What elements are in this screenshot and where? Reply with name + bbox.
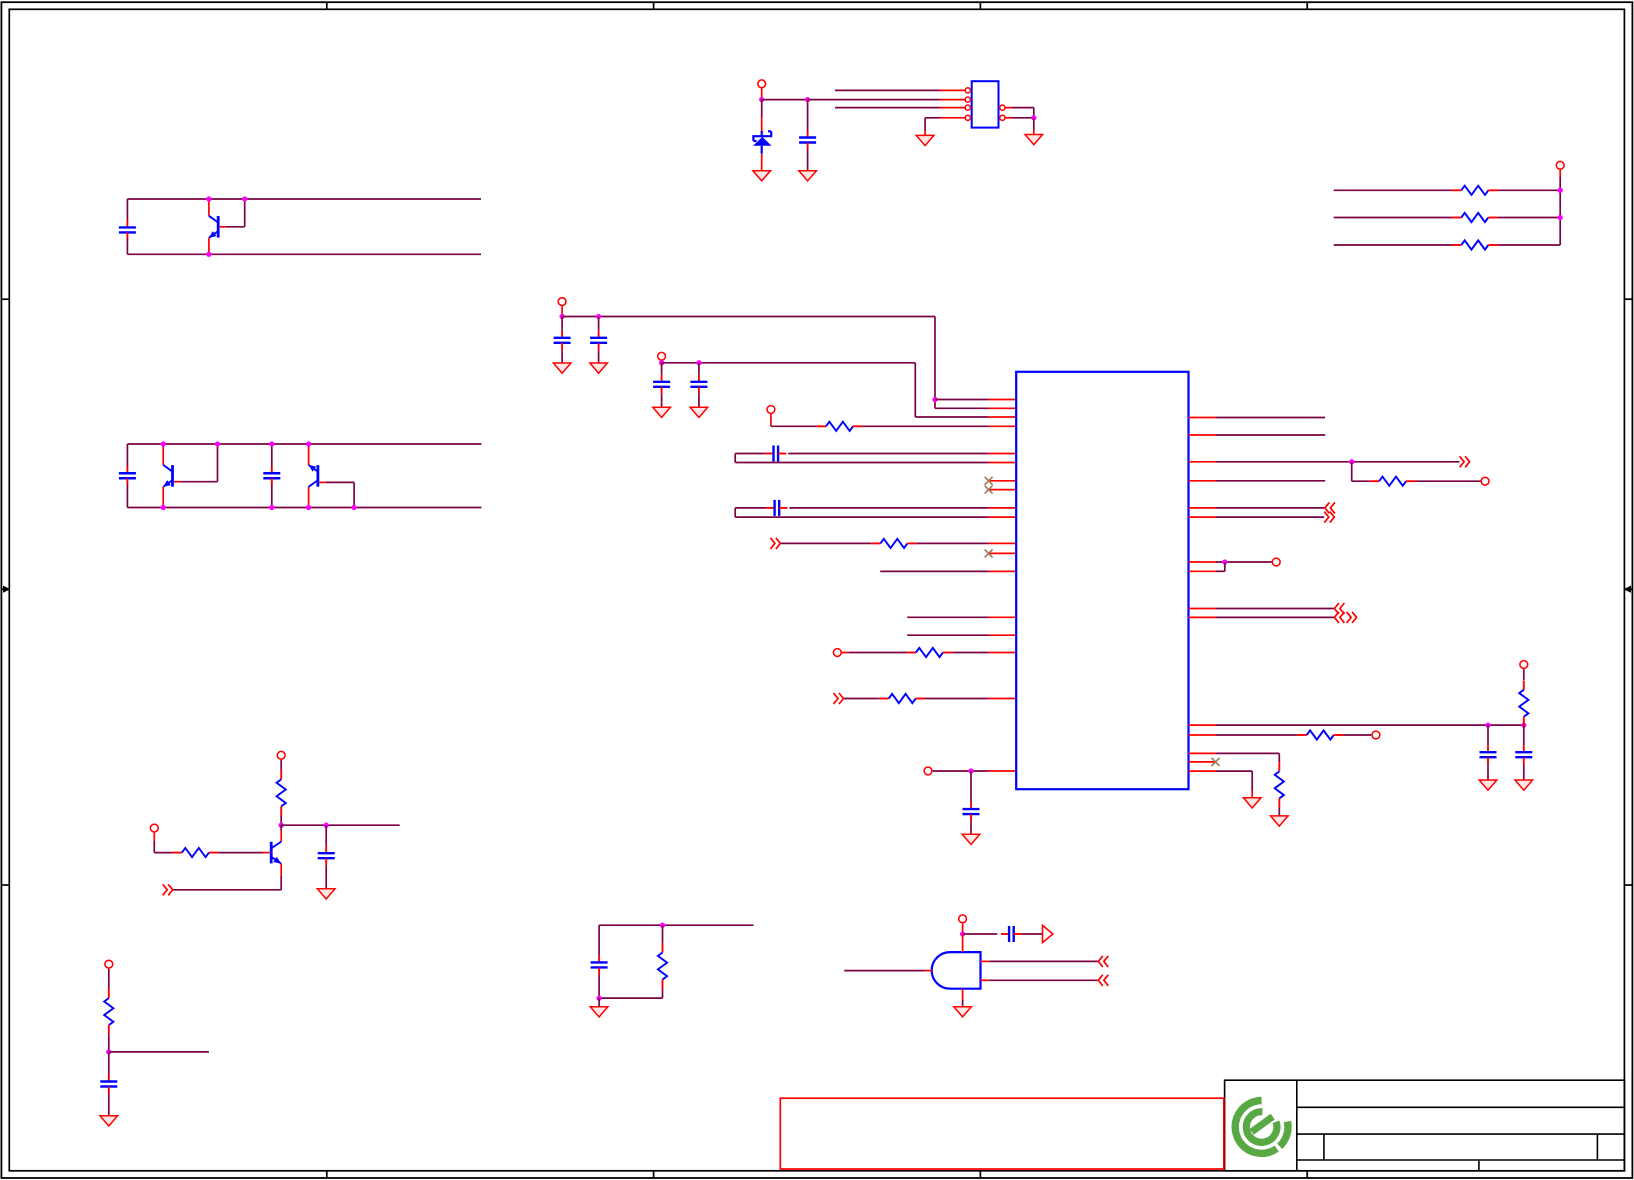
capacitor C2 bbox=[126, 444, 128, 467]
wire bbox=[1498, 244, 1561, 246]
power port P9 bbox=[1272, 558, 1280, 566]
wire bbox=[1343, 734, 1371, 736]
wire to J1 pin4 bbox=[925, 117, 940, 119]
wire to U1 bbox=[952, 652, 988, 654]
off-page connector left-arrow bbox=[1334, 612, 1344, 623]
resistor R13 bbox=[173, 852, 182, 854]
power port P3 bbox=[558, 298, 566, 306]
junction bbox=[559, 314, 564, 319]
off-page connector left-arrow bbox=[1098, 956, 1108, 967]
border tick marks top bbox=[326, 2, 328, 10]
ground bbox=[100, 1116, 118, 1126]
wire bbox=[1189, 770, 1217, 772]
ground bbox=[1515, 780, 1533, 790]
ground bbox=[317, 889, 335, 899]
wire bbox=[1334, 217, 1452, 219]
junction bbox=[596, 995, 601, 1000]
resistor R1 bbox=[1452, 189, 1461, 191]
off-page pointer bbox=[1043, 925, 1053, 942]
J1 pin4 circle bbox=[965, 115, 970, 120]
ground bbox=[553, 363, 571, 373]
ground bbox=[916, 135, 934, 145]
title block frame bbox=[1225, 1080, 1625, 1171]
J1 pin6 circle bbox=[1000, 115, 1005, 120]
capacitor C9 series bbox=[765, 453, 773, 455]
junction bbox=[106, 1049, 111, 1054]
capacitor C16 bbox=[598, 925, 600, 955]
power port P5 bbox=[767, 406, 775, 414]
wire net stub bbox=[1189, 434, 1217, 436]
capacitor C3 bbox=[271, 444, 273, 467]
junction bbox=[306, 505, 311, 510]
wire bbox=[1189, 752, 1217, 754]
wire bbox=[963, 933, 998, 935]
junction bbox=[242, 196, 247, 201]
ground bbox=[753, 171, 771, 181]
wire right bus bbox=[1559, 169, 1561, 177]
junction bbox=[161, 505, 166, 510]
ground bbox=[590, 1007, 608, 1017]
wire to U1 pin row3 bbox=[915, 416, 988, 418]
capacitor C5 bbox=[561, 317, 563, 331]
wire RC top bbox=[599, 924, 753, 926]
wire loop1 left bbox=[735, 453, 765, 455]
resistor R3 bbox=[1452, 244, 1461, 246]
no-connect pin bbox=[1189, 761, 1217, 763]
power port P8 bbox=[1481, 477, 1489, 485]
resistor R9 bbox=[1523, 669, 1525, 680]
transistor Q3 bbox=[308, 487, 310, 508]
wire out5 bbox=[1189, 616, 1217, 618]
wire loop1 top bbox=[989, 453, 1017, 455]
wire bbox=[1334, 189, 1452, 191]
capacitor C6 bbox=[598, 317, 600, 331]
resistor R15 bbox=[662, 925, 664, 943]
resistor R10 bbox=[1297, 734, 1306, 736]
no-connect pin bbox=[989, 489, 1016, 491]
capacitor C4 bbox=[807, 100, 809, 131]
zener diode D1 bbox=[761, 100, 763, 118]
power port P13 bbox=[150, 824, 158, 832]
capacitor C11 bbox=[970, 771, 972, 802]
wire net stub bbox=[907, 616, 988, 618]
wire J1 pin5 bbox=[1005, 107, 1012, 109]
wire to U1 pin row4 bbox=[862, 425, 988, 427]
wire out4 bbox=[1189, 608, 1217, 610]
junction bbox=[215, 441, 220, 446]
wire net stub bbox=[907, 634, 988, 636]
ground bbox=[690, 407, 708, 417]
wire loop2 top bbox=[989, 507, 1017, 509]
junction bbox=[279, 823, 284, 828]
transistor Q2 bbox=[162, 444, 164, 465]
J1 pin5 circle bbox=[1000, 105, 1005, 110]
power port P6 bbox=[833, 649, 841, 657]
wire to U1 pin row2 bbox=[935, 407, 989, 409]
junction bbox=[596, 314, 601, 319]
capacitor C7 bbox=[661, 363, 663, 375]
capacitor C12 bbox=[1487, 725, 1489, 745]
transistor Q1 bbox=[208, 199, 210, 216]
wire Q3 base bbox=[319, 481, 325, 483]
wire emitter net bbox=[173, 889, 282, 891]
wire net1 bottom bbox=[127, 253, 481, 255]
junction bbox=[1558, 215, 1563, 220]
wire Q1 base bbox=[220, 226, 226, 228]
junction bbox=[968, 768, 973, 773]
border centering arrow right bbox=[1628, 588, 1633, 590]
wire bbox=[1334, 244, 1452, 246]
wire U2 gnd bbox=[962, 989, 964, 1000]
off-page connector left-arrow bbox=[1098, 975, 1108, 986]
no-connect pin bbox=[989, 552, 1016, 554]
wire AVCC rail bbox=[662, 362, 916, 364]
wire bbox=[1278, 808, 1280, 816]
wire net stub bbox=[1189, 417, 1217, 419]
ground bbox=[590, 363, 608, 373]
wire bbox=[1189, 734, 1217, 736]
wire to J1 pin1 bbox=[835, 89, 940, 91]
J1 pin1 circle bbox=[965, 88, 970, 93]
wire U2 vcc bbox=[962, 923, 964, 934]
junction bbox=[1558, 188, 1563, 193]
wire to U1 pin row1 bbox=[935, 399, 989, 401]
resistor R11 bbox=[1278, 762, 1280, 771]
power port P11 bbox=[1372, 731, 1380, 739]
ground bbox=[1025, 135, 1043, 145]
wire Q2 base bbox=[174, 481, 180, 483]
off-page connector right-arrow bbox=[1324, 512, 1334, 523]
ground bbox=[954, 1007, 972, 1017]
wire to J1 pin2 bbox=[808, 99, 940, 101]
capacitor C15 bbox=[108, 1052, 110, 1075]
junction bbox=[161, 441, 166, 446]
off-page connector in3 bbox=[163, 884, 173, 895]
ground bbox=[1243, 798, 1261, 808]
border tick marks right bbox=[1624, 298, 1633, 300]
junction bbox=[960, 931, 965, 936]
wire bbox=[842, 652, 849, 654]
off-page connector out1 bbox=[1460, 456, 1470, 467]
ground bbox=[962, 834, 980, 844]
transistor Q4 bbox=[280, 825, 282, 830]
revision box red bbox=[780, 1098, 1224, 1169]
wire to J1 pin3 bbox=[835, 107, 940, 109]
junction bbox=[269, 441, 274, 446]
wire Q4 base bbox=[218, 852, 263, 854]
junction bbox=[1222, 559, 1227, 564]
wire bbox=[933, 770, 989, 772]
wire net2 top bbox=[127, 443, 481, 445]
wire bbox=[1351, 462, 1353, 481]
wire net1 top bbox=[127, 198, 481, 200]
power port P4 bbox=[658, 352, 666, 360]
ground bbox=[653, 407, 671, 417]
wire bbox=[109, 1051, 209, 1053]
wire bbox=[762, 99, 808, 101]
J1 pin3 circle bbox=[965, 105, 970, 110]
junction bbox=[660, 923, 665, 928]
junction bbox=[805, 97, 810, 102]
buffer U2 bbox=[932, 952, 981, 989]
wire out2 bbox=[1189, 507, 1217, 509]
border tick marks bottom bbox=[326, 1171, 328, 1178]
wire RC bottom bbox=[599, 997, 662, 999]
junction bbox=[1485, 722, 1490, 727]
junction bbox=[659, 360, 664, 365]
wire bbox=[1022, 933, 1043, 935]
wire collector net bbox=[281, 824, 400, 826]
wire loop2 bottom bbox=[735, 516, 988, 518]
power port P12 bbox=[277, 751, 285, 759]
off-page connector in2 bbox=[834, 693, 844, 704]
junction bbox=[206, 196, 211, 201]
capacitor C10 series bbox=[766, 507, 774, 509]
wire long net bbox=[1189, 724, 1217, 726]
wire out1 bbox=[1189, 461, 1217, 463]
wire VCC rail bbox=[562, 316, 935, 318]
wire bbox=[1415, 480, 1480, 482]
company logo bbox=[1235, 1101, 1288, 1154]
wire to port bbox=[1189, 561, 1217, 563]
ground bbox=[1271, 816, 1289, 826]
resistor R6 bbox=[907, 652, 916, 654]
off-page connector in1 bbox=[770, 538, 780, 549]
power port P10 bbox=[1520, 661, 1528, 669]
wire bbox=[1498, 217, 1561, 219]
ground bbox=[1479, 780, 1497, 790]
power port P7 bbox=[924, 767, 932, 775]
IC U1 bbox=[1016, 372, 1188, 789]
wire bbox=[153, 833, 155, 841]
power port P15 bbox=[959, 915, 967, 923]
wire to U1 bbox=[917, 542, 989, 544]
border centering arrow left bbox=[1, 588, 6, 590]
power port P2 bbox=[1556, 161, 1564, 169]
wire to U1 bbox=[925, 698, 989, 700]
junction bbox=[324, 823, 329, 828]
wire bbox=[844, 698, 880, 700]
power port P1 bbox=[758, 80, 766, 88]
wire bbox=[1498, 189, 1561, 191]
connector J1 bbox=[972, 81, 999, 127]
wire net2 bottom bbox=[127, 507, 481, 509]
ground bbox=[799, 171, 817, 181]
resistor R7 bbox=[879, 698, 888, 700]
wire J1 pin6 bbox=[1005, 117, 1012, 119]
power port P14 bbox=[105, 960, 113, 968]
wire loop2 left bbox=[735, 507, 766, 509]
wire U2 input bbox=[844, 970, 925, 972]
junction bbox=[1031, 115, 1036, 120]
capacitor C1 bbox=[126, 199, 128, 222]
resistor R12 bbox=[280, 760, 282, 770]
off-page connector left-arrow bbox=[1325, 502, 1335, 513]
resistor R4 bbox=[817, 425, 826, 427]
capacitor C14 bbox=[325, 825, 327, 846]
junction bbox=[206, 252, 211, 257]
junction bbox=[696, 360, 701, 365]
resistor R8 bbox=[1370, 480, 1379, 482]
J1 pin2 circle bbox=[965, 97, 970, 102]
resistor R14 bbox=[108, 969, 110, 989]
wire bbox=[1224, 562, 1226, 571]
resistor R5 bbox=[871, 542, 880, 544]
resistor R2 bbox=[1452, 217, 1461, 219]
capacitor C17 series bbox=[1001, 933, 1009, 935]
junction bbox=[932, 397, 937, 402]
capacitor C8 bbox=[698, 363, 700, 375]
wire net stub bbox=[1189, 480, 1217, 482]
junction bbox=[351, 505, 356, 510]
border tick marks left bbox=[1, 298, 9, 300]
junction bbox=[759, 97, 764, 102]
wire out3 bbox=[1189, 516, 1217, 518]
no-connect pin bbox=[989, 480, 1016, 482]
capacitor C13 bbox=[1523, 725, 1525, 745]
junction bbox=[1349, 459, 1354, 464]
junction bbox=[1521, 722, 1526, 727]
wire U2 out2 bbox=[981, 979, 990, 981]
wire loop1 bottom bbox=[735, 462, 988, 464]
wire net stub bbox=[880, 570, 988, 572]
wire bbox=[771, 425, 817, 427]
wire bbox=[780, 542, 871, 544]
junction bbox=[269, 505, 274, 510]
junction bbox=[306, 441, 311, 446]
off-page connector right-arrow bbox=[1347, 612, 1357, 623]
off-page connector left-arrow bbox=[1334, 603, 1344, 614]
wire U2 out1 bbox=[981, 960, 990, 962]
